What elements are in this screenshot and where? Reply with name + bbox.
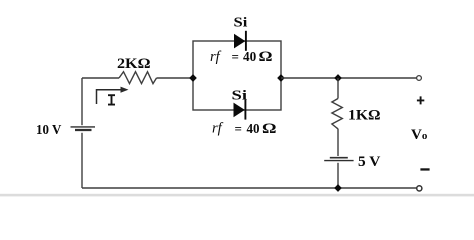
diode box outline bbox=[193, 41, 281, 110]
svg-text:=: = bbox=[235, 121, 242, 136]
wire left vertical lower bbox=[81, 133, 83, 188]
svg-text:=: = bbox=[232, 49, 239, 64]
wire left vertical upper bbox=[81, 78, 83, 125]
battery V1 10V bbox=[71, 126, 96, 128]
resistor R1 2K bbox=[119, 72, 157, 84]
svg-text:1KΩ: 1KΩ bbox=[348, 108, 381, 124]
diode D1 Si (top branch) bbox=[234, 34, 245, 49]
svg-text:5 V: 5 V bbox=[358, 154, 381, 170]
node right junction bbox=[277, 74, 285, 82]
node load junction top bbox=[334, 74, 342, 82]
svg-text:10 V: 10 V bbox=[36, 122, 62, 137]
svg-text:rf: rf bbox=[212, 121, 224, 137]
svg-text:Si: Si bbox=[234, 16, 248, 31]
output polarity minus bbox=[420, 168, 429, 170]
wire battery to bottom bbox=[337, 163, 339, 188]
svg-text:Vo: Vo bbox=[411, 127, 428, 143]
svg-text:Ω: Ω bbox=[259, 49, 273, 65]
terminal top (open circle) bbox=[417, 76, 422, 81]
wire 1K to battery bbox=[337, 129, 339, 157]
wire resistor to diode box bbox=[157, 77, 194, 79]
node load junction bottom bbox=[334, 184, 342, 192]
svg-text:2KΩ: 2KΩ bbox=[117, 56, 151, 72]
wire bottom horizontal bbox=[82, 187, 417, 189]
scan artifact band bbox=[0, 194, 474, 197]
diode D2 Si (bottom branch) bbox=[234, 103, 245, 118]
wire 1K branch upper bbox=[337, 78, 339, 99]
output polarity plus bbox=[417, 96, 424, 104]
current label I bbox=[108, 95, 115, 104]
wire box to output terminal bbox=[281, 77, 417, 79]
svg-text:rf: rf bbox=[210, 49, 222, 65]
node left junction bbox=[189, 74, 197, 82]
svg-text:40: 40 bbox=[247, 121, 260, 136]
resistor R2 1K bbox=[332, 99, 342, 129]
svg-text:Si: Si bbox=[232, 89, 248, 104]
svg-text:Ω: Ω bbox=[262, 121, 277, 137]
svg-text:40: 40 bbox=[243, 49, 256, 64]
terminal bottom (open circle) bbox=[417, 186, 422, 191]
current arrow I bbox=[97, 90, 124, 104]
wire top-left horizontal bbox=[82, 77, 119, 79]
battery V2 5V bbox=[330, 157, 348, 159]
